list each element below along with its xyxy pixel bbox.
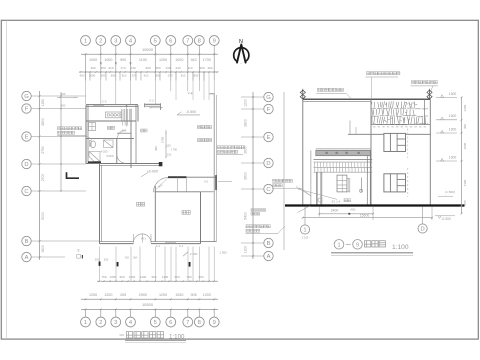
window C-3 lines in top wall [93, 105, 104, 107]
middle auxiliary vertical line [283, 92, 285, 250]
svg-text:10500: 10500 [142, 302, 154, 307]
svg-text:1: 1 [337, 242, 340, 248]
left annotation cluster A [273, 179, 276, 182]
plan upper block right walls [137, 105, 139, 122]
north arrow symbol [234, 39, 249, 63]
svg-text:350: 350 [155, 66, 160, 70]
svg-text:950: 950 [119, 275, 124, 279]
svg-text:910: 910 [181, 73, 186, 77]
wall section dark marks [99, 262, 101, 266]
svg-text:0.52%: 0.52% [106, 154, 114, 158]
svg-text:900: 900 [120, 58, 126, 62]
svg-text:4-250: 4-250 [101, 149, 108, 153]
svg-text:1190: 1190 [139, 58, 147, 62]
svg-text:E: E [25, 135, 29, 141]
leader arrowheads [100, 62, 102, 65]
svg-text:1.382: 1.382 [219, 251, 227, 255]
svg-text:D: D [266, 161, 270, 167]
svg-text:3000: 3000 [463, 142, 467, 149]
svg-text:120: 120 [167, 153, 172, 157]
svg-text:900: 900 [111, 73, 116, 77]
svg-text:200: 200 [95, 258, 100, 262]
svg-text:1300: 1300 [244, 246, 248, 254]
corridor window C-2 wall [117, 132, 131, 134]
stair treads [122, 109, 131, 126]
middle vertical dimension line [252, 92, 254, 259]
svg-text:1:100: 1:100 [392, 244, 409, 251]
svg-text:950: 950 [174, 275, 179, 279]
svg-text:1250: 1250 [41, 99, 45, 107]
fridge icon [89, 123, 96, 131]
left grid leader lines [31, 95, 86, 97]
bath top wall [86, 137, 134, 139]
svg-text:170: 170 [168, 73, 173, 77]
roof annotation 1 [318, 88, 321, 91]
svg-text:3300: 3300 [463, 179, 467, 186]
svg-text:1200: 1200 [159, 293, 167, 297]
svg-text:9: 9 [213, 39, 216, 45]
toilet icon [89, 141, 95, 148]
dark corner block [159, 162, 163, 166]
svg-text:1: 1 [303, 228, 306, 234]
svg-text:360: 360 [207, 66, 212, 70]
slope mark 2400 [183, 252, 188, 256]
svg-text:1000: 1000 [89, 58, 97, 62]
svg-text:900: 900 [61, 92, 66, 96]
bottom overall dimension line 10500 [81, 308, 218, 310]
drain dashed lines [407, 129, 409, 159]
basin icon [104, 140, 114, 148]
svg-text:D: D [421, 227, 425, 233]
porch top line [316, 148, 371, 150]
bottom extension lines from plan [99, 247, 101, 282]
svg-text:600: 600 [463, 200, 467, 205]
svg-text:2700: 2700 [41, 174, 45, 182]
courtyard east wall [213, 94, 215, 242]
elevation left wall [302, 99, 304, 205]
svg-text:M-1: M-1 [141, 237, 146, 241]
left detail dimension line [60, 92, 62, 191]
svg-text:1100: 1100 [140, 275, 147, 279]
svg-text:1: 1 [84, 39, 87, 45]
left vertical dimension line [39, 91, 41, 260]
svg-text:Y-4: Y-4 [188, 91, 193, 95]
svg-text:350: 350 [100, 66, 105, 70]
porch door panel [337, 175, 350, 192]
svg-text:G: G [24, 94, 29, 100]
svg-text:910: 910 [122, 73, 127, 77]
bath right wall with door arc [116, 138, 118, 163]
top detail dimension line [79, 71, 218, 73]
svg-text:900: 900 [101, 73, 106, 77]
elevation right wall [429, 99, 431, 205]
french door arcs M-1 [134, 234, 152, 243]
svg-text:F: F [267, 107, 271, 113]
window W1 upper [384, 133, 406, 151]
svg-text:1200: 1200 [89, 293, 97, 297]
svg-text:8: 8 [198, 39, 201, 45]
svg-text:V-2: V-2 [204, 179, 209, 183]
parapet coping bottom line [303, 101, 371, 103]
entry door jambs [176, 177, 178, 192]
svg-text:E: E [267, 135, 271, 141]
svg-text:2400: 2400 [331, 208, 339, 212]
stair direction arrow [126, 104, 128, 127]
svg-text:2700: 2700 [161, 136, 165, 143]
svg-text:300: 300 [463, 124, 467, 129]
small circle mark on column [359, 189, 362, 192]
svg-text:1500: 1500 [129, 275, 136, 279]
svg-text:1300: 1300 [449, 155, 457, 159]
svg-text:1:100: 1:100 [169, 333, 185, 340]
svg-text:F: F [25, 107, 29, 113]
svg-text:1000: 1000 [104, 58, 112, 62]
svg-text:5: 5 [154, 39, 157, 45]
dining room label [108, 126, 111, 129]
plan right mini dims [165, 130, 167, 158]
elevation title underline [331, 252, 413, 254]
svg-text:N: N [239, 39, 243, 45]
axis arrows into plan [85, 72, 87, 104]
svg-text:1300: 1300 [449, 114, 457, 118]
svg-text:1200: 1200 [104, 293, 112, 297]
svg-text:240: 240 [130, 66, 135, 70]
svg-text:1020: 1020 [175, 58, 183, 62]
leader to right annotation [218, 180, 232, 182]
svg-text:240: 240 [175, 66, 180, 70]
svg-text:-0.500: -0.500 [186, 110, 196, 114]
right annotation cluster [217, 146, 220, 149]
entry door arc M-2 [153, 178, 168, 193]
svg-text:6: 6 [169, 39, 172, 45]
svg-text:1700: 1700 [171, 148, 177, 152]
svg-text:C: C [266, 187, 270, 193]
right pilaster line [424, 99, 426, 125]
left annotation cluster B [246, 225, 249, 228]
bedroom walls [154, 186, 156, 242]
svg-text:2900: 2900 [139, 293, 147, 297]
right finial [427, 89, 432, 100]
svg-text:900: 900 [194, 73, 199, 77]
room label living [137, 202, 141, 206]
svg-text:900: 900 [145, 66, 150, 70]
top extension stubs [85, 72, 87, 81]
shower icon [89, 152, 100, 162]
svg-text:10500: 10500 [142, 47, 154, 52]
svg-text:3: 3 [114, 320, 117, 326]
elevation title [334, 240, 344, 250]
setback wall [370, 99, 372, 205]
svg-text:1600: 1600 [41, 245, 45, 253]
dash row under hatch [373, 126, 426, 128]
top overall dimension line 10500 [81, 53, 218, 55]
kitchen stove icon [106, 112, 122, 118]
bottom wall continues with window C-1 [151, 243, 201, 245]
svg-text:5: 5 [154, 320, 157, 326]
wall east of bedroom top [201, 191, 214, 193]
svg-text:1300: 1300 [449, 127, 457, 131]
svg-text:910: 910 [187, 66, 192, 70]
second floor slab line [348, 133, 384, 135]
small dim near courtyard window [149, 107, 163, 109]
svg-text:8: 8 [198, 320, 201, 326]
svg-text:2800: 2800 [41, 118, 45, 126]
svg-text:C-1: C-1 [179, 244, 184, 248]
top-right wall piece with window C-2 [145, 103, 161, 105]
dim line 15500 [303, 217, 432, 219]
label master closet [198, 139, 201, 142]
svg-text:5400: 5400 [244, 212, 248, 220]
svg-text:A: A [25, 255, 29, 261]
living room bottom wall [100, 243, 134, 245]
svg-text:1700: 1700 [203, 58, 211, 62]
below ground extension lines [318, 207, 320, 217]
svg-text:C-1: C-1 [156, 244, 161, 248]
svg-text:205: 205 [120, 293, 126, 297]
svg-text:C-2: C-2 [149, 98, 154, 102]
svg-text:2: 2 [99, 320, 102, 326]
bottom grid bubbles axes 1-9 [81, 317, 91, 327]
dim line 2400 [319, 213, 373, 215]
svg-text:E1 1:4: E1 1:4 [332, 199, 341, 203]
ramp slope below ground [298, 206, 311, 213]
svg-text:1050: 1050 [110, 275, 117, 279]
hatch band bottom line [371, 123, 430, 125]
svg-text:5000: 5000 [41, 212, 45, 220]
svg-text:8: 8 [78, 249, 80, 253]
svg-text:900: 900 [80, 73, 85, 77]
hall label [141, 129, 144, 132]
svg-text:C: C [24, 189, 28, 195]
roof annotation 3 [412, 81, 415, 84]
svg-text:±0.000: ±0.000 [147, 170, 158, 174]
stone hatch band [371, 101, 428, 125]
svg-text:1:100: 1:100 [302, 236, 309, 240]
svg-text:960: 960 [154, 146, 158, 151]
bottom detail dimension line [97, 280, 218, 282]
porch front columns [310, 150, 312, 205]
svg-text:M2: M2 [125, 256, 129, 260]
room label bedroom [182, 211, 186, 215]
svg-text:750: 750 [186, 275, 191, 279]
plan upper block left wall [85, 105, 87, 164]
svg-text:9: 9 [356, 242, 359, 248]
svg-text:3: 3 [114, 39, 117, 45]
elevation axis bubble right [418, 224, 427, 233]
svg-text:2: 2 [99, 39, 102, 45]
roof annotation 2 [367, 72, 370, 75]
ground-left tiny annotation [251, 209, 254, 212]
svg-text:2300: 2300 [463, 104, 467, 111]
svg-text:942: 942 [190, 58, 196, 62]
top grid bubbles axes 1-9 [81, 36, 91, 46]
svg-text:905: 905 [190, 293, 196, 297]
svg-text:910: 910 [108, 66, 113, 70]
svg-text:A: A [267, 254, 271, 260]
ramp annotation [318, 198, 322, 202]
porch beam [316, 150, 371, 155]
svg-text:6: 6 [169, 320, 172, 326]
svg-text:1: 1 [84, 320, 87, 326]
plan title [120, 334, 125, 336]
bottom axis dimension line [81, 298, 218, 300]
mid horizontal wall [86, 163, 161, 165]
svg-text:1200: 1200 [159, 58, 167, 62]
svg-text:2750: 2750 [41, 146, 45, 154]
svg-text:15500: 15500 [360, 214, 370, 218]
inner margin line left [6, 20, 8, 339]
label master balcony [198, 126, 201, 129]
window W2 lower [384, 174, 406, 192]
svg-text:G: G [266, 95, 271, 101]
svg-text:7: 7 [186, 320, 189, 326]
middle grid bubbles G-A [264, 92, 273, 101]
top grid leader lines [100, 46, 102, 72]
svg-text:1530: 1530 [175, 293, 183, 297]
living room left wall [99, 164, 101, 244]
svg-text:750: 750 [101, 275, 106, 279]
dark L mark [67, 172, 80, 178]
svg-text:9: 9 [213, 320, 216, 326]
svg-text:7: 7 [186, 39, 189, 45]
svg-text:2800: 2800 [244, 119, 248, 127]
left grid bubbles G-A [22, 91, 31, 100]
plan top wall [86, 104, 138, 106]
dentil band rows [314, 162, 373, 172]
svg-text:900: 900 [61, 104, 66, 108]
door arc above bath wall [118, 130, 127, 138]
svg-text:300: 300 [90, 66, 95, 70]
svg-text:D: D [24, 162, 28, 168]
ground line [285, 204, 465, 206]
middle grid leader lines [241, 96, 264, 98]
svg-text:130: 130 [165, 66, 170, 70]
svg-text:B: B [267, 241, 271, 247]
svg-text:B: B [25, 239, 29, 245]
svg-text:2600: 2600 [244, 172, 248, 180]
porch fascia line [314, 159, 373, 161]
entry wall dark segment [168, 176, 187, 178]
vent pipe [349, 121, 351, 135]
plan title underline [125, 339, 186, 341]
right vertical dimension line [461, 97, 463, 213]
left finial [300, 89, 305, 100]
svg-text:170: 170 [120, 66, 125, 70]
annotation leaders into porch [298, 189, 337, 199]
courtyard wall dark segment [215, 175, 217, 190]
bottom wall right thin segment [201, 241, 217, 243]
svg-text:200: 200 [104, 258, 109, 262]
svg-text:100: 100 [166, 144, 171, 148]
svg-text:1200: 1200 [244, 99, 248, 107]
svg-text:910: 910 [144, 73, 149, 77]
bottom grid leader lines [85, 309, 87, 317]
svg-text:950: 950 [151, 275, 156, 279]
svg-text:C-3: C-3 [102, 100, 107, 104]
svg-text:400: 400 [350, 208, 355, 212]
elevation axis bubble left [300, 225, 309, 234]
svg-text:300: 300 [199, 66, 204, 70]
left annotation cluster [58, 127, 61, 130]
svg-text:(1.500): (1.500) [445, 190, 455, 194]
svg-text:1203: 1203 [203, 293, 211, 297]
svg-text:1300: 1300 [449, 92, 457, 96]
svg-text:2.400: 2.400 [190, 252, 198, 256]
svg-text:-0.300: -0.300 [441, 217, 451, 221]
elevation parapet top line [303, 98, 431, 100]
kitchen divider wall [86, 120, 136, 122]
bath dark wall segment [88, 161, 101, 163]
